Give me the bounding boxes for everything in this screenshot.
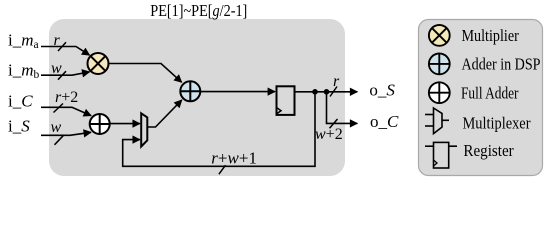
svg-text:i_S: i_S — [8, 116, 30, 135]
adder in DSP — [180, 81, 200, 101]
svg-text:r: r — [333, 73, 340, 90]
wire multiplier to DSP adder — [109, 64, 182, 83]
svg-text:w: w — [51, 60, 62, 77]
wire i_m_a to multiplier — [41, 47, 89, 56]
register — [277, 86, 295, 115]
wire full adder to multiplexer — [110, 123, 140, 125]
full adder FA — [90, 114, 110, 134]
svg-text:Multiplier: Multiplier — [462, 26, 520, 45]
svg-text:r+2: r+2 — [55, 89, 78, 106]
bus slash on i_S wire — [55, 135, 65, 145]
multiplier — [88, 53, 109, 74]
svg-text:PE[1]~PE[g/2-1]: PE[1]~PE[g/2-1] — [150, 1, 247, 20]
svg-text:r+w+1: r+w+1 — [211, 149, 257, 168]
feedback wire to multiplexer — [123, 92, 315, 167]
legend register symbol — [425, 142, 457, 168]
bus slash on o_S wire — [330, 87, 337, 97]
legend multiplexer symbol — [425, 108, 449, 134]
junction node dot 2 — [324, 89, 330, 95]
legend adder-in-DSP symbol — [429, 54, 450, 75]
svg-text:w+2: w+2 — [315, 126, 343, 143]
wire junction to o_C — [327, 92, 358, 124]
wire i_S to full adder — [41, 132, 91, 135]
svg-text:o_S: o_S — [369, 81, 395, 100]
svg-text:w: w — [51, 119, 62, 136]
svg-text:i_C: i_C — [8, 92, 33, 111]
bus slash on i_m_b wire — [58, 71, 66, 80]
svg-text:r: r — [54, 32, 61, 49]
junction node dot 1 — [312, 89, 318, 95]
bus slash on i_C wire — [54, 104, 64, 113]
wire DSP adder to register — [201, 91, 275, 93]
legend full adder symbol — [429, 82, 450, 103]
legend multiplier symbol — [429, 25, 450, 46]
legend box — [419, 20, 543, 176]
multiplexer — [141, 113, 147, 146]
bus slash on feedback wire — [219, 165, 226, 174]
svg-text:Multiplexer: Multiplexer — [463, 114, 531, 133]
wire i_m_b to multiplier — [41, 72, 89, 75]
svg-text:Adder in DSP: Adder in DSP — [462, 55, 541, 74]
wire register to o_S — [295, 91, 358, 93]
svg-text:Full Adder: Full Adder — [461, 84, 519, 103]
svg-text:Register: Register — [463, 141, 514, 160]
wire multiplexer to DSP adder — [147, 100, 182, 127]
svg-text:o_C: o_C — [370, 112, 399, 131]
bus slash on o_C wire — [330, 119, 338, 128]
svg-text:i_mb: i_mb — [8, 61, 40, 82]
svg-text:i_ma: i_ma — [8, 31, 39, 52]
PE block background box — [49, 19, 345, 176]
wire i_C to full adder — [41, 107, 91, 115]
bus slash on i_m_a wire — [58, 42, 66, 51]
